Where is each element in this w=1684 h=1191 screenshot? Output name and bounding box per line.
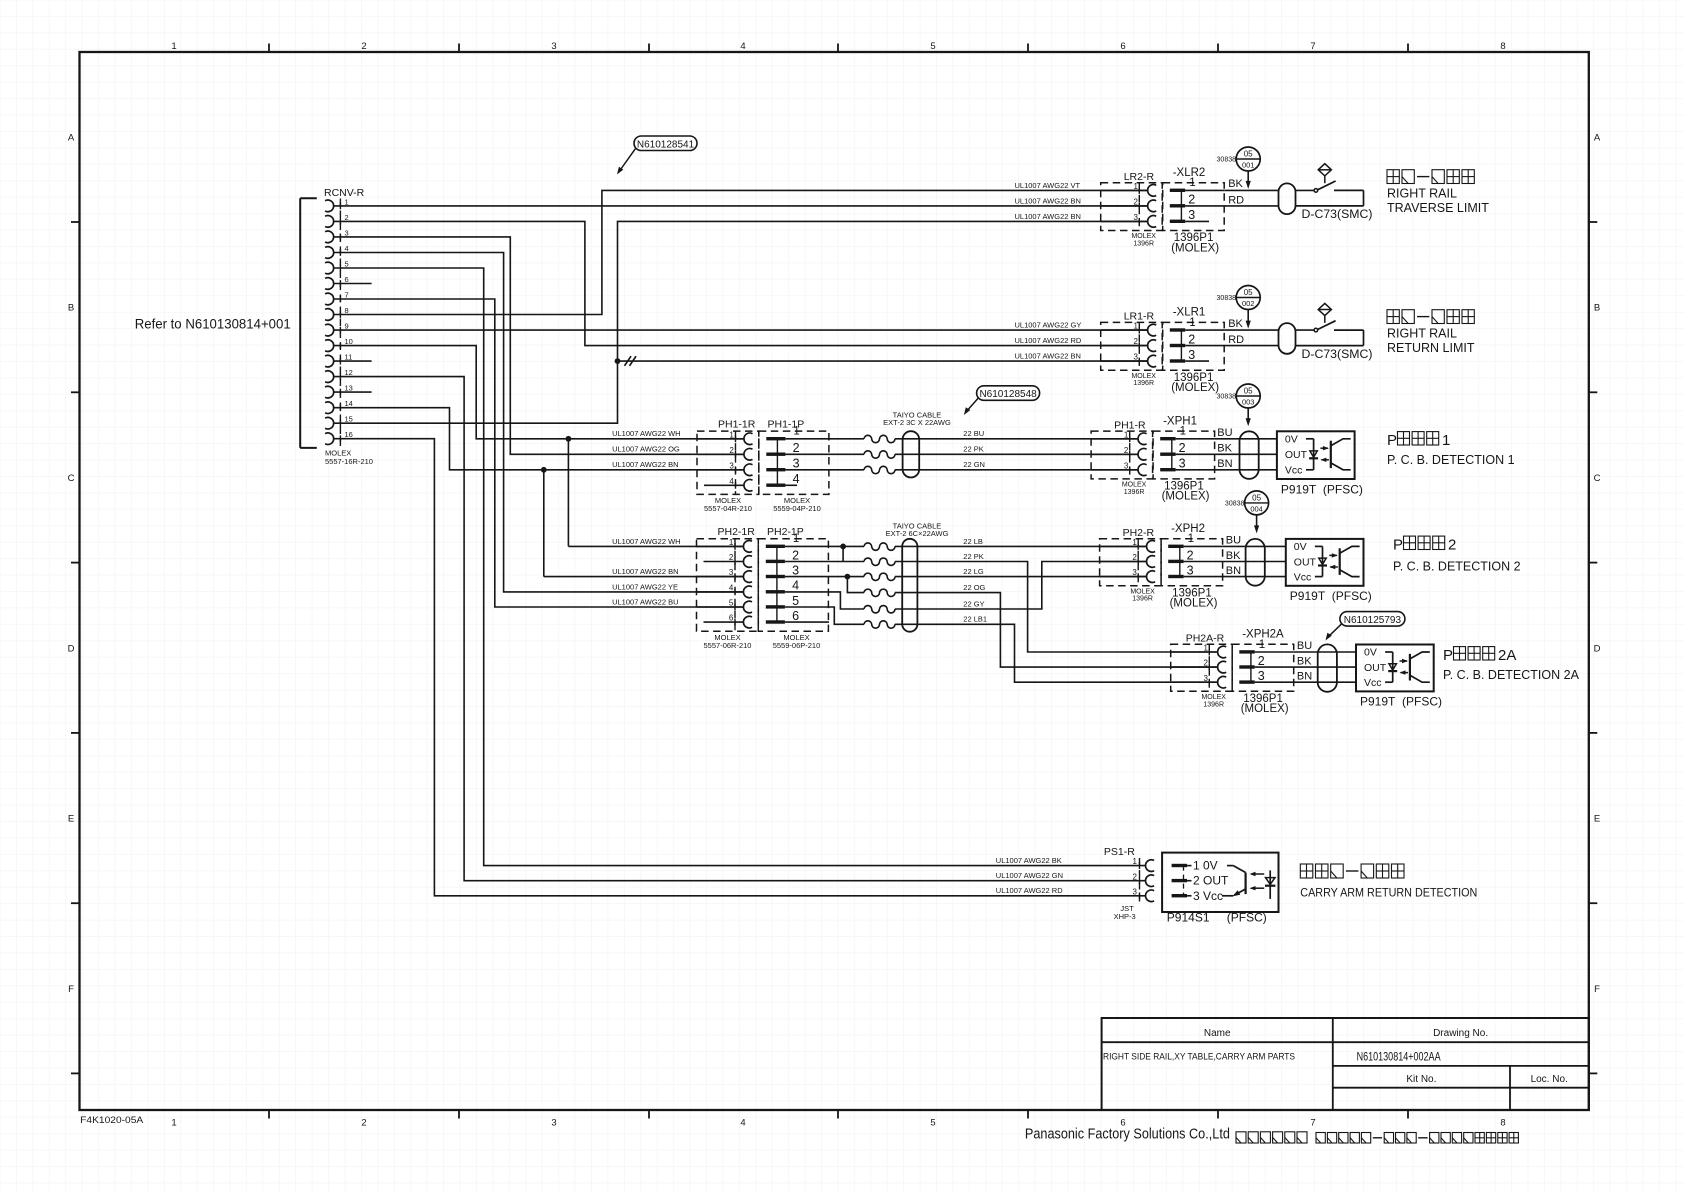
svg-text:2: 2 <box>1188 332 1195 346</box>
svg-text:P914S1: P914S1 <box>1167 911 1210 925</box>
svg-text:N610130814+002AA: N610130814+002AA <box>1357 1050 1441 1064</box>
svg-text:1396R: 1396R <box>1133 380 1154 387</box>
svg-text:22 LB1: 22 LB1 <box>963 615 987 624</box>
svg-text:2: 2 <box>345 213 349 222</box>
svg-text:2A: 2A <box>1498 647 1516 664</box>
svg-text:4: 4 <box>740 1118 745 1129</box>
svg-text:OUT: OUT <box>1364 662 1387 674</box>
svg-text:2: 2 <box>793 441 800 455</box>
svg-text:BK: BK <box>1226 550 1241 562</box>
svg-text:3 Vcc: 3 Vcc <box>1193 889 1223 903</box>
svg-text:(MOLEX): (MOLEX) <box>1171 242 1219 254</box>
svg-text:30838: 30838 <box>1217 295 1237 302</box>
svg-text:3: 3 <box>1133 887 1138 896</box>
svg-text:RIGHT SIDE RAIL,XY TABLE,CARRY: RIGHT SIDE RAIL,XY TABLE,CARRY ARM PARTS <box>1103 1052 1295 1063</box>
svg-text:P919T: P919T <box>1290 589 1326 603</box>
svg-text:002: 002 <box>1242 299 1255 308</box>
svg-text:4: 4 <box>345 244 349 253</box>
svg-text:P: P <box>1443 647 1453 664</box>
svg-text:-XLR2: -XLR2 <box>1173 167 1206 179</box>
svg-text:(MOLEX): (MOLEX) <box>1162 491 1210 503</box>
svg-text:A: A <box>68 133 75 144</box>
svg-text:PH2-1P: PH2-1P <box>767 526 804 538</box>
svg-text:22 LB: 22 LB <box>963 537 983 546</box>
svg-text:UL1007 AWG22 BN: UL1007 AWG22 BN <box>1015 212 1081 221</box>
svg-text:8: 8 <box>1500 41 1505 52</box>
svg-text:F4K1020-05A: F4K1020-05A <box>80 1115 144 1126</box>
svg-text:1: 1 <box>1259 639 1265 651</box>
svg-text:UL1007 AWG22 OG: UL1007 AWG22 OG <box>612 445 680 454</box>
svg-text:P919T: P919T <box>1360 695 1396 709</box>
svg-text:PS1-R: PS1-R <box>1104 846 1135 858</box>
svg-text:UL1007 AWG22 RD: UL1007 AWG22 RD <box>1015 336 1082 345</box>
svg-text:(MOLEX): (MOLEX) <box>1170 598 1218 610</box>
svg-text:N610125793: N610125793 <box>1344 615 1402 626</box>
svg-text:4: 4 <box>792 579 799 593</box>
svg-text:2: 2 <box>792 548 799 562</box>
svg-text:1: 1 <box>171 41 176 52</box>
svg-text:2: 2 <box>1188 193 1195 207</box>
svg-text:2: 2 <box>1179 441 1186 455</box>
svg-text:-XLR1: -XLR1 <box>1173 307 1206 319</box>
svg-text:D-C73(SMC): D-C73(SMC) <box>1302 349 1373 361</box>
svg-text:MOLEX: MOLEX <box>1131 233 1156 240</box>
svg-text:P: P <box>1393 537 1403 554</box>
svg-text:1: 1 <box>1189 317 1195 329</box>
svg-text:PH2A-R: PH2A-R <box>1186 633 1225 645</box>
svg-text:7: 7 <box>1310 1118 1315 1129</box>
svg-text:-XPH2: -XPH2 <box>1171 523 1205 535</box>
svg-text:UL1007 AWG22 GY: UL1007 AWG22 GY <box>1015 321 1082 330</box>
svg-text:UL1007 AWG22 BN: UL1007 AWG22 BN <box>612 567 678 576</box>
svg-text:P: P <box>1387 432 1397 449</box>
svg-text:(MOLEX): (MOLEX) <box>1241 703 1289 715</box>
svg-text:4: 4 <box>793 472 800 486</box>
svg-text:Vcc: Vcc <box>1285 465 1303 477</box>
svg-text:0V: 0V <box>1294 541 1307 553</box>
svg-text:1396R: 1396R <box>1132 596 1153 603</box>
svg-text:5: 5 <box>345 260 349 269</box>
svg-text:UL1007 AWG22 WH: UL1007 AWG22 WH <box>612 537 681 546</box>
svg-text:-XPH2A: -XPH2A <box>1242 629 1284 641</box>
svg-text:MOLEX: MOLEX <box>1131 373 1156 380</box>
svg-text:14: 14 <box>345 399 353 408</box>
svg-text:E: E <box>1594 814 1600 825</box>
svg-text:0V: 0V <box>1364 647 1377 659</box>
svg-text:PH2-1R: PH2-1R <box>718 526 756 538</box>
svg-text:2: 2 <box>1133 872 1138 881</box>
svg-text:MOLEX: MOLEX <box>1201 694 1226 701</box>
svg-text:C: C <box>68 473 75 484</box>
svg-text:PH1-1R: PH1-1R <box>718 419 756 431</box>
svg-text:5559-04P-210: 5559-04P-210 <box>773 504 821 513</box>
svg-text:16: 16 <box>345 430 353 439</box>
svg-text:05: 05 <box>1244 288 1253 297</box>
svg-text:22 GY: 22 GY <box>963 599 984 608</box>
svg-text:11: 11 <box>345 353 353 362</box>
svg-text:30838: 30838 <box>1217 394 1237 401</box>
svg-text:(PFSC): (PFSC) <box>1227 911 1267 925</box>
svg-text:22 PK: 22 PK <box>963 445 983 454</box>
svg-text:UL1007 AWG22 BK: UL1007 AWG22 BK <box>996 856 1062 865</box>
svg-text:05: 05 <box>1252 494 1261 503</box>
svg-text:6: 6 <box>792 609 799 623</box>
svg-text:BK: BK <box>1217 443 1232 455</box>
svg-text:Vcc: Vcc <box>1294 572 1312 584</box>
svg-text:9: 9 <box>345 322 349 331</box>
svg-text:RETURN LIMIT: RETURN LIMIT <box>1387 341 1475 355</box>
svg-text:2 OUT: 2 OUT <box>1193 874 1229 888</box>
svg-text:003: 003 <box>1242 398 1255 407</box>
svg-text:22 GN: 22 GN <box>963 460 985 469</box>
svg-text:D-C73(SMC): D-C73(SMC) <box>1302 209 1373 221</box>
svg-text:Kit No.: Kit No. <box>1406 1074 1436 1085</box>
svg-text:RCNV-R: RCNV-R <box>324 187 365 199</box>
svg-text:5: 5 <box>930 1118 935 1129</box>
svg-text:5559-06P-210: 5559-06P-210 <box>773 641 821 650</box>
svg-text:RD: RD <box>1228 194 1244 206</box>
svg-text:1396R: 1396R <box>1133 241 1154 248</box>
svg-text:C: C <box>1594 473 1601 484</box>
svg-text:5: 5 <box>792 594 799 608</box>
svg-text:(MOLEX): (MOLEX) <box>1171 382 1219 394</box>
svg-text:004: 004 <box>1250 505 1263 514</box>
svg-text:Name: Name <box>1204 1028 1231 1039</box>
svg-text:(PFSC): (PFSC) <box>1323 482 1363 496</box>
svg-text:22 BU: 22 BU <box>963 429 984 438</box>
svg-text:B: B <box>68 303 74 314</box>
svg-text:XHP-3: XHP-3 <box>1114 912 1136 921</box>
svg-text:Refer to N610130814+001: Refer to N610130814+001 <box>135 315 291 331</box>
svg-text:22 PK: 22 PK <box>963 552 983 561</box>
svg-text:2: 2 <box>361 1118 366 1129</box>
svg-text:BU: BU <box>1217 427 1232 439</box>
svg-text:N610128541: N610128541 <box>637 139 695 150</box>
svg-text:12: 12 <box>345 368 353 377</box>
svg-text:3: 3 <box>793 457 800 471</box>
svg-text:CARRY ARM RETURN DETECTION: CARRY ARM RETURN DETECTION <box>1300 886 1477 900</box>
svg-text:P. C. B. DETECTION 2: P. C. B. DETECTION 2 <box>1393 560 1521 574</box>
svg-text:PH1-1P: PH1-1P <box>768 419 805 431</box>
svg-text:MOLEX: MOLEX <box>1122 482 1147 489</box>
svg-text:D: D <box>1594 643 1601 654</box>
svg-text:RIGHT RAIL: RIGHT RAIL <box>1387 326 1457 340</box>
svg-text:F: F <box>68 984 74 995</box>
svg-text:RD: RD <box>1228 334 1244 346</box>
svg-text:BN: BN <box>1226 565 1241 577</box>
svg-text:1: 1 <box>1188 533 1194 545</box>
svg-text:3: 3 <box>1188 348 1195 362</box>
svg-text:F: F <box>1594 984 1600 995</box>
svg-text:15: 15 <box>345 415 353 424</box>
svg-text:(PFSC): (PFSC) <box>1402 695 1442 709</box>
svg-text:10: 10 <box>345 337 353 346</box>
svg-text:1: 1 <box>171 1118 176 1129</box>
svg-text:EXT-2 6C×22AWG: EXT-2 6C×22AWG <box>886 529 949 538</box>
svg-text:UL1007 AWG22 GN: UL1007 AWG22 GN <box>996 871 1063 880</box>
svg-text:2: 2 <box>1258 654 1265 668</box>
svg-text:1: 1 <box>1180 426 1186 438</box>
svg-text:8: 8 <box>345 306 349 315</box>
svg-text:Loc. No.: Loc. No. <box>1531 1074 1568 1085</box>
svg-text:7: 7 <box>345 291 349 300</box>
svg-text:3: 3 <box>551 41 556 52</box>
svg-text:1 0V: 1 0V <box>1193 859 1218 873</box>
svg-text:2: 2 <box>1448 537 1456 554</box>
svg-text:UL1007 AWG22 BN: UL1007 AWG22 BN <box>1015 196 1081 205</box>
svg-text:(PFSC): (PFSC) <box>1332 589 1372 603</box>
svg-text:PH2-R: PH2-R <box>1123 527 1155 539</box>
svg-text:PH1-R: PH1-R <box>1114 419 1146 431</box>
svg-text:3: 3 <box>1188 208 1195 222</box>
svg-text:A: A <box>1594 133 1601 144</box>
svg-text:UL1007 AWG22 BN: UL1007 AWG22 BN <box>1015 352 1081 361</box>
svg-text:Vcc: Vcc <box>1364 677 1382 689</box>
svg-text:BU: BU <box>1297 640 1312 652</box>
svg-text:6: 6 <box>1120 41 1125 52</box>
svg-text:MOLEX: MOLEX <box>1130 588 1155 595</box>
svg-text:OUT: OUT <box>1294 556 1317 568</box>
svg-text:05: 05 <box>1244 150 1253 159</box>
svg-text:TRAVERSE LIMIT: TRAVERSE LIMIT <box>1387 201 1489 215</box>
svg-text:Panasonic Factory Solutions Co: Panasonic Factory Solutions Co.,Ltd <box>1025 1127 1230 1143</box>
svg-text:BK: BK <box>1228 178 1243 190</box>
svg-text:5557-04R-210: 5557-04R-210 <box>704 504 752 513</box>
svg-text:05: 05 <box>1244 387 1253 396</box>
svg-text:UL1007 AWG22 YE: UL1007 AWG22 YE <box>612 582 678 591</box>
svg-text:OUT: OUT <box>1285 449 1308 461</box>
svg-text:Drawing No.: Drawing No. <box>1433 1028 1488 1039</box>
svg-text:BK: BK <box>1228 318 1243 330</box>
svg-text:UL1007 AWG22 WH: UL1007 AWG22 WH <box>612 429 681 438</box>
svg-text:UL1007 AWG22 RD: UL1007 AWG22 RD <box>996 886 1063 895</box>
svg-text:0V: 0V <box>1285 433 1298 445</box>
svg-text:P. C. B. DETECTION 1: P. C. B. DETECTION 1 <box>1387 453 1515 467</box>
svg-text:5: 5 <box>930 41 935 52</box>
svg-text:5557-06R-210: 5557-06R-210 <box>704 641 752 650</box>
svg-text:13: 13 <box>345 384 353 393</box>
svg-text:P919T: P919T <box>1281 482 1317 496</box>
svg-text:3: 3 <box>551 1118 556 1129</box>
svg-text:3: 3 <box>1179 457 1186 471</box>
svg-text:1: 1 <box>1442 432 1450 449</box>
svg-text:2: 2 <box>1187 548 1194 562</box>
svg-text:1396R: 1396R <box>1203 701 1224 708</box>
svg-text:7: 7 <box>1310 41 1315 52</box>
svg-text:UL1007 AWG22 VT: UL1007 AWG22 VT <box>1015 181 1081 190</box>
svg-text:3: 3 <box>345 228 349 237</box>
svg-text:6: 6 <box>345 275 349 284</box>
svg-text:-XPH1: -XPH1 <box>1163 415 1197 427</box>
svg-text:BN: BN <box>1297 671 1312 683</box>
svg-text:E: E <box>68 814 74 825</box>
svg-text:1396R: 1396R <box>1124 489 1145 496</box>
svg-text:N610128548: N610128548 <box>979 389 1037 400</box>
svg-text:1: 1 <box>1189 177 1195 189</box>
svg-text:UL1007 AWG22 BU: UL1007 AWG22 BU <box>612 597 678 606</box>
svg-text:8: 8 <box>1500 1118 1505 1129</box>
svg-text:30838: 30838 <box>1225 501 1245 508</box>
svg-text:BU: BU <box>1226 534 1241 546</box>
svg-text:RIGHT RAIL: RIGHT RAIL <box>1387 186 1457 200</box>
svg-text:EXT-2 3C X 22AWG: EXT-2 3C X 22AWG <box>883 418 951 427</box>
svg-text:30838: 30838 <box>1217 157 1237 164</box>
svg-text:3: 3 <box>1258 669 1265 683</box>
svg-text:22 OG: 22 OG <box>963 583 985 592</box>
svg-text:001: 001 <box>1242 161 1255 170</box>
svg-text:3: 3 <box>792 563 799 577</box>
svg-text:D: D <box>68 643 75 654</box>
svg-text:1: 1 <box>1133 857 1138 866</box>
svg-text:LR1-R: LR1-R <box>1124 311 1155 323</box>
svg-text:BK: BK <box>1297 656 1312 668</box>
svg-text:B: B <box>1594 303 1600 314</box>
svg-text:2: 2 <box>361 41 366 52</box>
svg-text:22 LG: 22 LG <box>963 567 984 576</box>
svg-text:P. C. B. DETECTION 2A: P. C. B. DETECTION 2A <box>1443 668 1580 682</box>
svg-text:LR2-R: LR2-R <box>1124 171 1155 183</box>
svg-text:BN: BN <box>1217 458 1232 470</box>
svg-text:4: 4 <box>740 41 745 52</box>
svg-text:3: 3 <box>1187 563 1194 577</box>
svg-text:UL1007 AWG22 BN: UL1007 AWG22 BN <box>612 460 678 469</box>
svg-text:5557-16R-210: 5557-16R-210 <box>325 457 373 466</box>
